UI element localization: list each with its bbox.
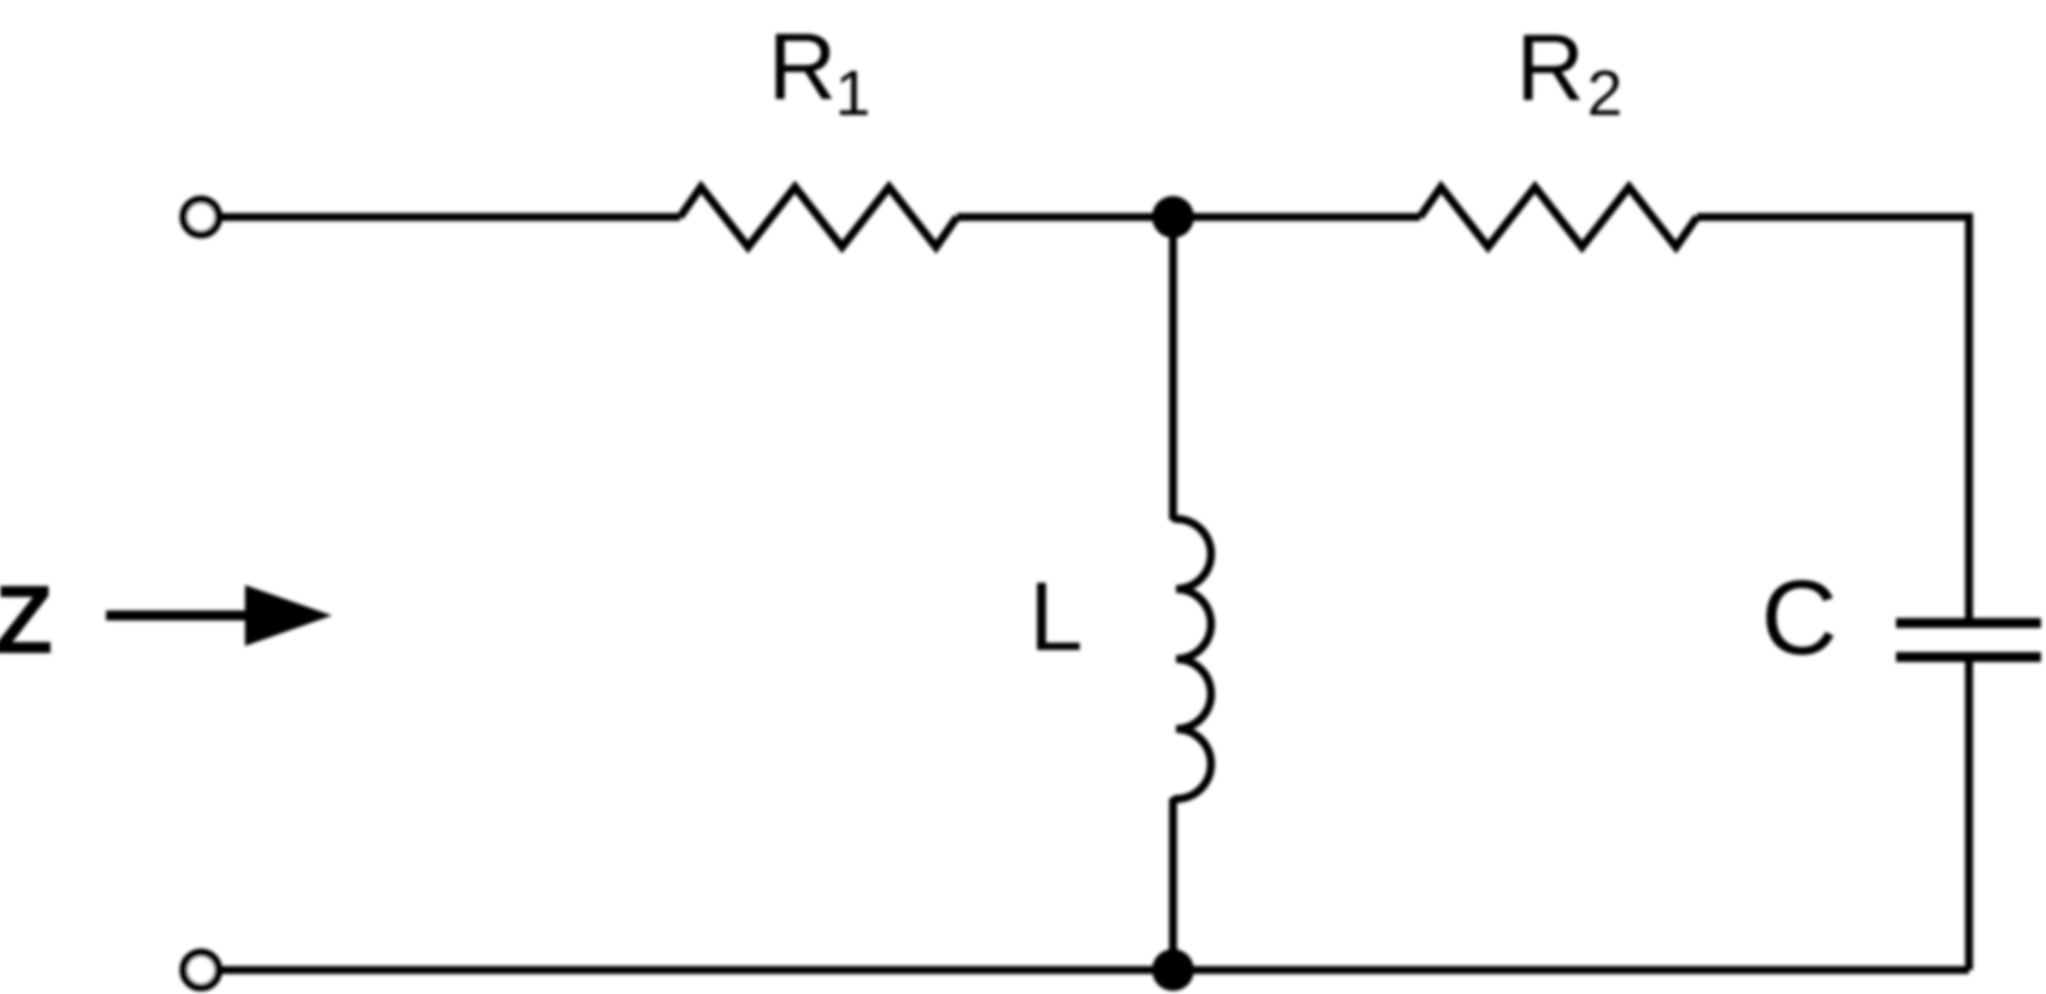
svg-text:1: 1 <box>835 57 871 129</box>
capacitor C top plate <box>1896 618 2041 628</box>
wire (bottom rail, right corner to bottom-left terminal) <box>222 966 1969 974</box>
svg-text:L: L <box>1029 562 1083 671</box>
resistor R1 <box>680 187 957 247</box>
inductor L (wire from node A down, 4-loop coil, wire to node B) <box>1173 217 1211 970</box>
svg-text:C: C <box>1761 559 1838 677</box>
arrow shaft (impedance looking-in arrow) <box>106 611 252 621</box>
wire (R1 to node A) <box>957 213 1173 221</box>
resistor R2 <box>1420 187 1697 247</box>
wire (node A to R2) <box>1173 213 1420 221</box>
wire (capacitor bottom plate down to bottom-right corner) <box>1965 657 1973 970</box>
wire (R2 to top-right corner) <box>1697 213 1969 221</box>
svg-text:R: R <box>1516 15 1585 121</box>
arrowhead of impedance arrow <box>245 585 332 646</box>
wire (top-left terminal to R1) <box>222 213 680 221</box>
wire (right branch down to capacitor top plate) <box>1965 213 1973 623</box>
capacitor C bottom plate <box>1896 652 2041 662</box>
svg-text:R: R <box>768 14 837 120</box>
svg-text:2: 2 <box>1587 57 1623 129</box>
terminal (open circle, bottom-left input) <box>184 953 219 988</box>
svg-text:Z: Z <box>0 565 53 674</box>
terminal (open circle, top-left input) <box>184 200 219 235</box>
node A (junction dot, top) <box>1152 196 1194 238</box>
node B (junction dot, bottom) <box>1152 949 1194 991</box>
